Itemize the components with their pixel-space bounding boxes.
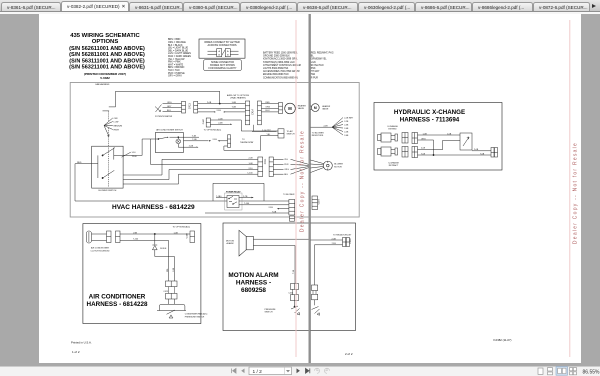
svg-text:C447: C447: [187, 232, 189, 238]
svg-text:R PUR: R PUR: [311, 77, 318, 79]
svg-text:Dealer Copy -- Not for Resale: Dealer Copy -- Not for Resale: [573, 142, 579, 244]
blower switch label: [99, 190, 117, 192]
potentiometer: [155, 104, 182, 112]
svg-text:T-100: T-100: [133, 239, 139, 241]
svg-text:2-4B: 2-4B: [344, 128, 349, 130]
air conditioner switch box: [155, 133, 183, 153]
to options label: [173, 225, 191, 228]
svg-text:PNK = PINK: PNK = PINK: [168, 62, 181, 64]
svg-text:ACROSS CONNECTORS: ACROSS CONNECTORS: [208, 44, 237, 47]
wire labels: [284, 159, 289, 176]
svg-text:6809258: 6809258: [241, 287, 266, 294]
blower motor circle: [323, 161, 332, 170]
svg-text:POTENTIOMETER: POTENTIOMETER: [155, 116, 173, 118]
svg-text:FOR DRAWING CLARITY: FOR DRAWING CLARITY: [209, 67, 237, 70]
svg-text:GRY: GRY: [167, 106, 172, 108]
pressure switch label: [185, 313, 208, 319]
page 2 footer texts: [345, 352, 353, 356]
svg-text:AIR CONDITIONER: AIR CONDITIONER: [89, 293, 146, 300]
svg-text:RED: RED: [77, 162, 82, 164]
svg-text:AIRFLOW TO OPTIONS: AIRFLOW TO OPTIONS: [227, 94, 250, 97]
stair-step wires: blower switch to C411: [123, 159, 258, 184]
page number 1 of 2: [72, 350, 80, 354]
connector C408: [343, 238, 350, 247]
a/c switch contacts and thermostat symbol: [158, 137, 211, 148]
motion alarm bold label: [228, 272, 278, 294]
nav next page button: [297, 368, 300, 373]
circuit number legend text (page 2 part): [311, 53, 334, 80]
svg-text:ORG = ORANGE: ORG = ORANGE: [168, 41, 186, 44]
svg-text:M: M: [288, 106, 292, 111]
svg-text:2-08: 2-08: [421, 147, 426, 149]
svg-text:LOW: LOW: [114, 122, 119, 124]
svg-text:2-1B: 2-1B: [213, 139, 218, 141]
svg-text:TAN = TAN: TAN = TAN: [168, 69, 180, 72]
svg-text:GRN/DBM YEL: GRN/DBM YEL: [311, 59, 328, 61]
svg-text:HVAC HARNESS - 6814229: HVAC HARNESS - 6814229: [112, 204, 195, 211]
C413 label: [189, 103, 192, 109]
svg-text:YEL: YEL: [284, 159, 289, 161]
blower switch box: [92, 146, 123, 188]
svg-text:2 of 2: 2 of 2: [345, 352, 353, 356]
air conditioner harness bold label: [87, 293, 148, 308]
svg-text:THERMOSTAT: THERMOSTAT: [240, 141, 254, 144]
svg-text:T-0B: T-0B: [272, 211, 277, 213]
x-change relay/diode box: [460, 133, 472, 150]
svg-text:T-0B: T-0B: [232, 107, 237, 109]
svg-text:TO OPTIONS (A/C): TO OPTIONS (A/C): [173, 225, 191, 228]
rotated wire labels: [167, 267, 175, 272]
svg-text:RESISTORS: RESISTORS: [312, 135, 324, 137]
motion alarm harness box (spans page gap): [223, 223, 356, 331]
wires C413 to C414: [198, 103, 246, 113]
title block: 435 WIRING SCHEMATIC OPTIONS: [69, 33, 145, 80]
rotated wire label 7-1B: [293, 269, 295, 274]
heater valve motor (page 1): [285, 103, 296, 114]
small connector above motion box: [290, 216, 295, 221]
svg-text:BLK = BLACK: BLK = BLACK: [168, 44, 183, 47]
svg-text:RED, RED/WHT, PKG: RED, RED/WHT, PKG: [311, 53, 334, 55]
hydraulic x-change bold label: [394, 109, 465, 124]
wires into connector: [205, 208, 289, 213]
clutch solenoid label: [90, 247, 110, 253]
extend wires: [418, 135, 461, 155]
svg-text:7-1B0: 7-1B0: [216, 196, 222, 198]
air conditioner harness box: [83, 224, 201, 324]
blower motor label: [334, 164, 343, 169]
svg-text:C447: C447: [203, 118, 205, 124]
svg-text:T-0B: T-0B: [192, 139, 197, 141]
svg-text:PRESSURE SWITCH: PRESSURE SWITCH: [185, 316, 205, 318]
svg-text:MOTOR: MOTOR: [334, 166, 342, 168]
switch blade outside blower switch: [122, 152, 131, 157]
a/c clutch connector C416: [107, 231, 121, 243]
svg-text:CAB HARNESS: CAB HARNESS: [95, 83, 110, 86]
svg-text:OPTIONS: OPTIONS: [92, 39, 119, 45]
svg-text:1-0B: 1-0B: [174, 232, 179, 234]
svg-text:1-0B: 1-0B: [447, 133, 452, 135]
svg-text:2-0B: 2-0B: [332, 238, 337, 240]
white strip under tabs: [0, 12, 600, 14]
legend connector symbol: [208, 49, 239, 57]
page 2 motion switch: [312, 300, 320, 316]
motion alarm speaker: [239, 230, 253, 256]
to options (a/c) connector in HVAC box: [206, 118, 210, 127]
potentiometer wire labels: [167, 102, 172, 112]
svg-text:V-0382 (11-07): V-0382 (11-07): [493, 338, 512, 342]
svg-text:ORG: ORG: [284, 169, 289, 171]
blower resistor connector (4 pin): [289, 200, 295, 216]
svg-text:(S/N 562811001 AND ABOVE): (S/N 562811001 AND ABOVE): [69, 52, 145, 58]
power relay label: [226, 190, 241, 193]
pressure switch (a/c): [157, 299, 186, 318]
wires from C416: [120, 233, 190, 281]
C408 designator: [350, 238, 352, 244]
heater valve label (page 1, clipped): [298, 104, 307, 110]
svg-text:1-0B: 1-0B: [232, 102, 237, 104]
svg-text:2-1B: 2-1B: [269, 207, 274, 209]
to options rotated designator (a/c box): [187, 232, 189, 238]
svg-text:DIODE: DIODE: [160, 248, 167, 250]
to options rotated designator: [203, 118, 205, 124]
svg-text:C413: C413: [189, 103, 192, 109]
motion alarm label: [226, 240, 235, 245]
page 2 connector stack C420 duplicate: [312, 285, 318, 300]
svg-text:PNK: PNK: [311, 68, 316, 70]
svg-text:RETRACT: RETRACT: [389, 164, 399, 167]
svg-text:2-1B WHT: 2-1B WHT: [344, 117, 354, 119]
svg-text:BLU: BLU: [167, 110, 171, 112]
svg-text:BRN = BRN: BRN = BRN: [168, 39, 181, 41]
blower switch contacts: [92, 148, 124, 187]
svg-text:2-0B: 2-0B: [207, 102, 212, 104]
svg-text:HIGH: HIGH: [114, 129, 120, 131]
power relay outer box: [225, 193, 242, 210]
svg-text:HARNESS - 7113694: HARNESS - 7113694: [400, 117, 460, 124]
HVAC harness bold label: [112, 204, 195, 211]
wire number labels near C411: [247, 158, 253, 175]
connector label: [283, 194, 295, 196]
airflow to options label: [227, 94, 250, 100]
tab bar: [0, 0, 600, 12]
svg-text:99 YEL/TAN: 99 YEL/TAN: [311, 64, 324, 67]
fan switch position labels: [114, 118, 123, 132]
heater valve motor pin connector: [279, 103, 283, 114]
to options connector (a/c box): [190, 231, 195, 243]
svg-text:2-1B: 2-1B: [218, 118, 223, 120]
wire: A/C switch down-feed to C411: [151, 139, 258, 164]
svg-text:YEL: YEL: [167, 268, 169, 272]
to options (a/c) label: [204, 129, 222, 132]
stacked connectors C425: [166, 281, 178, 299]
printed in usa: [71, 341, 92, 345]
svg-text:SWITCH: SWITCH: [287, 134, 295, 136]
svg-text:CLUTCH SOLENOID: CLUTCH SOLENOID: [90, 250, 110, 252]
x-change extend label: [387, 125, 398, 131]
wires C411 to blower motor (page edge): [273, 159, 308, 174]
thermostat connector: [228, 135, 231, 148]
C407 designator: [319, 198, 321, 204]
to blower resistors label: [312, 132, 325, 137]
svg-text:(HVAC HEATER): (HVAC HEATER): [230, 96, 246, 99]
switch label: [265, 309, 277, 314]
retract connector pins: [402, 147, 418, 158]
svg-text:2-1B: 2-1B: [217, 110, 222, 112]
svg-text:2-6B: 2-6B: [344, 135, 349, 137]
svg-text:HT GRY: HT GRY: [311, 71, 320, 73]
wires into C408: [311, 240, 343, 245]
bottom toolbar: [0, 366, 600, 376]
svg-text:WHT = WHITE: WHT = WHITE: [168, 64, 184, 66]
svg-text:X-CHANGE: X-CHANGE: [388, 162, 399, 165]
svg-text:MEDIUM: MEDIUM: [114, 125, 123, 127]
svg-text:C425: C425: [163, 291, 168, 293]
svg-text:2-2B: 2-2B: [344, 121, 349, 123]
continuous scroll icon: [548, 368, 553, 375]
svg-text:STARTING(S) 3800-3899 LGN: STARTING(S) 3800-3899 LGN: [263, 61, 295, 64]
svg-text:EXTEND: EXTEND: [388, 129, 397, 131]
harness number label on box top edge: [95, 83, 110, 86]
hydraulic x-change harness box: [374, 103, 502, 171]
wire: RED feed from blower switch to relay row: [75, 164, 289, 201]
extend solenoid: [378, 133, 398, 142]
svg-text:LIGHTS 5600-5699 PNK: LIGHTS 5600-5699 PNK: [263, 68, 289, 70]
wire labels: [266, 102, 271, 112]
svg-text:CONDENSER FAN (A/C): CONDENSER FAN (A/C): [185, 313, 208, 316]
svg-text:ALARM: ALARM: [227, 242, 234, 245]
svg-text:PUR: PUR: [284, 164, 289, 166]
next view button (disabled): [325, 368, 330, 373]
nav first page button: [232, 369, 237, 374]
potentiometer label: [155, 116, 173, 118]
motion alarm switch: [291, 301, 300, 316]
connector C413: [182, 101, 198, 113]
dealer copy red text page 1: [299, 130, 305, 232]
svg-text:Printed in U.S.A.: Printed in U.S.A.: [71, 341, 92, 345]
svg-text:PUR = PURPLE: PUR = PURPLE: [168, 73, 185, 75]
svg-text:HARNESS - 6814228: HARNESS - 6814228: [87, 301, 148, 308]
label RED: [77, 162, 82, 164]
dealer copy red text page 2: [573, 142, 579, 244]
thermostat label: [240, 139, 254, 144]
wire relay to blower resistor connector: [239, 204, 289, 206]
thermostat wires: [218, 136, 278, 151]
svg-text:LGN = LIGHT GREEN: LGN = LIGHT GREEN: [168, 53, 191, 55]
svg-text:7-100: 7-100: [244, 203, 250, 205]
svg-text:LGN: LGN: [133, 232, 138, 234]
retract label: [388, 162, 399, 168]
svg-text:ORG: ORG: [266, 107, 271, 109]
svg-text:1-100: 1-100: [247, 173, 253, 175]
relay internal contacts: [229, 196, 238, 204]
wire: blower switch to A/C switch feed: [123, 139, 158, 155]
svg-text:TO BLOWER: TO BLOWER: [283, 194, 295, 196]
svg-text:V-0382: V-0382: [100, 76, 110, 80]
zoom percent: [583, 369, 600, 375]
dealer copy red line page 1: [295, 20, 297, 357]
svg-text:X-CHANGE: X-CHANGE: [387, 125, 398, 128]
wire color legend: [168, 39, 191, 77]
svg-text:1 of 2: 1 of 2: [72, 350, 80, 354]
diode label: [160, 248, 167, 250]
svg-text:TO OPTIONS (A/C): TO OPTIONS (A/C): [204, 129, 222, 132]
nav last page button: [306, 368, 310, 373]
heater valve motor (page 2): [311, 104, 320, 112]
svg-text:GRY = GRAY: GRY = GRAY: [168, 75, 182, 78]
legend box: wires connect by letter: [199, 39, 245, 58]
svg-text:C420: C420: [288, 292, 293, 294]
x-change output connector: [491, 148, 498, 158]
svg-text:MOTION ALARM: MOTION ALARM: [228, 272, 278, 279]
circuit number legend text (page 1 part): [263, 52, 302, 80]
air conditioner switch label: [156, 129, 183, 132]
connector stack C420: [290, 284, 298, 301]
wire labels between C413 and C414: [207, 102, 236, 112]
svg-text:ORG: ORG: [167, 102, 172, 104]
connector C407 at page edge: [312, 196, 318, 210]
svg-text:DGN = DARK GREEN: DGN = DARK GREEN: [168, 55, 191, 58]
svg-text:(S/N 563211001 AND ABOVE): (S/N 563211001 AND ABOVE): [69, 65, 145, 71]
C425 label: [163, 291, 168, 293]
C411 label: [264, 158, 267, 164]
svg-text:2-0B: 2-0B: [218, 123, 223, 125]
svg-text:C408: C408: [350, 238, 352, 244]
connector C411: [258, 157, 273, 177]
wire relay to connector: [472, 150, 491, 152]
svg-text:T-100: T-100: [132, 156, 138, 158]
tree wire labels: [324, 117, 354, 137]
svg-text:LGN: LGN: [311, 62, 316, 64]
svg-text:2-3B: 2-3B: [344, 124, 349, 126]
to relay label (page 2 motion box): [333, 233, 352, 236]
svg-text:HEATER: HEATER: [322, 105, 331, 108]
C408 wire labels: [332, 238, 337, 245]
wire: 2-10 to heater switch connector: [252, 131, 277, 133]
svg-text:C411: C411: [264, 158, 267, 164]
wires C414 to heater motor: [254, 104, 279, 131]
C414 label: [251, 108, 254, 114]
svg-text:HYDRAULIC X-CHANGE: HYDRAULIC X-CHANGE: [394, 109, 465, 116]
svg-text:TO RELAY/CIRCUIT: TO RELAY/CIRCUIT: [333, 233, 352, 236]
svg-text:VALVE: VALVE: [322, 108, 329, 111]
heater valve label: [322, 105, 331, 111]
relay wires: [216, 197, 254, 198]
svg-text:RED: RED: [266, 102, 271, 104]
svg-text:COMMUNICATION 8900-8999 PU: COMMUNICATION 8900-8999 PU: [263, 76, 299, 79]
page gap band between pages: [309, 14, 311, 363]
C420 label: [288, 292, 293, 294]
svg-text:2-TB: 2-TB: [243, 196, 248, 198]
svg-text:MOTION: MOTION: [226, 240, 235, 242]
page 1: [39, 14, 309, 363]
svg-text:1-0B: 1-0B: [423, 133, 428, 135]
page number field: [249, 367, 292, 375]
previous view button (disabled): [315, 368, 320, 373]
svg-text:GROUND 2000-2099 BLK: GROUND 2000-2099 BLK: [263, 56, 290, 58]
svg-text:HARNESS -: HARNESS -: [236, 280, 271, 287]
svg-text:AIR CONDITIONER: AIR CONDITIONER: [91, 247, 109, 250]
a/c clutch coil: [86, 231, 106, 243]
svg-text:BATTERY FEED 1000-1099 RED,: BATTERY FEED 1000-1099 RED,: [263, 52, 298, 55]
svg-text:LBL = LIGHT BLUE: LBL = LIGHT BLUE: [168, 48, 188, 50]
svg-text:BLU: BLU: [266, 110, 270, 112]
svg-text:ENGINE 8000-8099 TAN: ENGINE 8000-8099 TAN: [263, 73, 289, 76]
svg-text:BLOWER SWITCH: BLOWER SWITCH: [99, 190, 117, 192]
HVAC harness boundary box (gray, spans both pages): [70, 83, 359, 218]
retract solenoid: [378, 147, 398, 156]
legend box: same connector note: [204, 60, 242, 71]
wire: fan switch feed: [109, 91, 220, 107]
diode: [152, 234, 174, 281]
svg-text:TO: TO: [242, 139, 245, 141]
fan speed switch: [103, 111, 113, 146]
svg-text:SWITCH: SWITCH: [265, 312, 273, 314]
wire tree to blower resistors: [311, 118, 344, 136]
svg-text:T-1B: T-1B: [192, 136, 197, 138]
connector C414: [245, 101, 261, 125]
power relay body: [227, 196, 239, 208]
svg-text:HEATER: HEATER: [298, 104, 307, 107]
svg-text:(S/N 562611001 AND ABOVE): (S/N 562611001 AND ABOVE): [69, 46, 145, 52]
wire loop around relay: [213, 183, 264, 201]
two page scroll icon: [570, 368, 577, 375]
svg-text:IGNITION(ACC) 3000-3099 GRN,: IGNITION(ACC) 3000-3099 GRN,: [263, 58, 298, 61]
nav prev page button: [241, 369, 244, 374]
retract wires: [418, 140, 492, 155]
single page icon: [538, 368, 543, 374]
svg-text:BLU: BLU: [284, 174, 288, 176]
svg-text:TAN: TAN: [311, 73, 316, 76]
svg-text:BLOWER: BLOWER: [334, 164, 343, 166]
svg-text:M: M: [314, 106, 317, 110]
svg-text:2-0B: 2-0B: [474, 149, 479, 151]
svg-text:ACCESSORIES 7000-7899 GRY/W: ACCESSORIES 7000-7899 GRY/W: [263, 70, 300, 73]
extend connector pins: [402, 133, 418, 144]
dealer copy red line page 2: [569, 20, 571, 357]
svg-text:C414: C414: [251, 108, 254, 114]
page 2: [311, 14, 582, 363]
svg-text:2-5B: 2-5B: [344, 131, 349, 133]
svg-text:7-1B: 7-1B: [332, 243, 337, 245]
svg-text:VALVE: VALVE: [298, 107, 305, 110]
svg-text:OFF: OFF: [114, 118, 119, 120]
svg-text:ORG: ORG: [421, 138, 426, 140]
svg-text:C407: C407: [319, 198, 321, 204]
svg-text:(S/N 563111001 AND ABOVE): (S/N 563111001 AND ABOVE): [69, 58, 145, 64]
svg-text:POWER RELAY: POWER RELAY: [226, 190, 241, 193]
two page view icon (active): [556, 367, 568, 376]
svg-text:BL: BL: [311, 56, 315, 58]
heater switch label: [287, 130, 295, 136]
svg-text:TO A/C: TO A/C: [287, 130, 294, 133]
heater switch connector: [278, 129, 284, 138]
svg-text:DBL = DARK BLUE: DBL = DARK BLUE: [168, 49, 188, 52]
svg-text:AIR CONDITIONER SWITCH: AIR CONDITIONER SWITCH: [156, 129, 183, 132]
svg-text:BRN = BROWN: BRN = BROWN: [168, 67, 185, 69]
wire from C408 down to page 2 C420 stack: [314, 245, 316, 285]
tab bar bottom edge line: [0, 11, 600, 12]
wire from speaker across page: [253, 239, 308, 283]
wires from to-options connector: [210, 120, 278, 131]
svg-text:PRESSURE: PRESSURE: [265, 309, 277, 311]
svg-text:YEL = YELLOW: YEL = YELLOW: [168, 59, 185, 61]
blower motor fan wires: [311, 160, 324, 173]
svg-text:Dealer Copy -- Not for Resale: Dealer Copy -- Not for Resale: [299, 130, 305, 232]
svg-text:T-0B: T-0B: [480, 153, 485, 155]
svg-text:2-0B: 2-0B: [189, 146, 194, 148]
svg-text:1-16: 1-16: [132, 152, 137, 154]
